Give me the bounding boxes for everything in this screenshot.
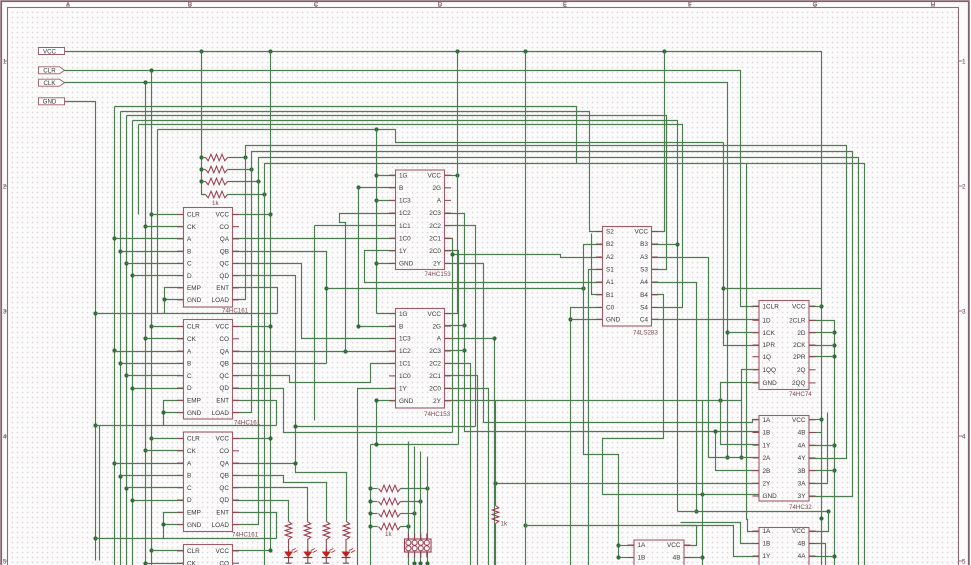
wire 1PR U7 up xyxy=(724,143,760,346)
svg-text:B: B xyxy=(399,323,403,330)
resistor R4 1k xyxy=(206,191,228,198)
bus line L6 xyxy=(158,130,724,143)
svg-text:CLR: CLR xyxy=(187,436,200,443)
wire xyxy=(371,526,378,528)
svg-text:4B: 4B xyxy=(798,541,806,548)
wire pin U1 xyxy=(133,275,184,277)
svg-text:LOAD: LOAD xyxy=(212,522,230,529)
wire VCC U8 xyxy=(810,419,822,421)
net row3 down right side xyxy=(259,158,859,565)
column letters xyxy=(66,2,936,9)
wire resistor to LED3 xyxy=(325,539,327,552)
svg-text:1B: 1B xyxy=(763,541,771,548)
wire header pin xyxy=(414,553,416,565)
svg-text:S3: S3 xyxy=(640,267,648,274)
svg-text:VCC: VCC xyxy=(635,229,649,236)
svg-text:1: 1 xyxy=(962,58,966,65)
wire staircase 2 xyxy=(296,426,476,428)
svg-text:EMP: EMP xyxy=(187,398,201,405)
svg-text:S1: S1 xyxy=(606,267,614,274)
wire R13 bottom xyxy=(495,524,497,565)
wire pin U2 xyxy=(152,326,184,328)
resistor R2 1k xyxy=(206,166,228,173)
svg-text:1C3: 1C3 xyxy=(399,198,411,205)
svg-text:A4: A4 xyxy=(640,279,648,286)
wire to 2C3 U4 xyxy=(445,350,465,352)
svg-text:1k: 1k xyxy=(212,200,219,207)
wire xyxy=(371,488,378,490)
svg-text:C4: C4 xyxy=(640,317,649,324)
GND supply flag xyxy=(39,98,65,106)
wire row2 to LOAD U2 xyxy=(233,170,252,413)
B bus vertical xyxy=(120,112,122,565)
IC U3 (74HC153) xyxy=(389,170,451,278)
wire A4 U5 xyxy=(652,283,697,512)
svg-text:B: B xyxy=(187,473,191,480)
svg-text:A2: A2 xyxy=(606,254,614,261)
wire A U4 xyxy=(445,338,495,340)
wire xyxy=(228,169,252,171)
svg-text:CK: CK xyxy=(187,560,197,565)
svg-text:GND: GND xyxy=(763,380,778,387)
wire 2C1 U4 drop xyxy=(445,376,478,565)
LED4 cathode lead + pin xyxy=(345,558,347,564)
wire resistor to LED2 xyxy=(307,539,309,552)
wire C4 U5 to 1D U7 xyxy=(652,319,760,321)
IC U6 (74HC161) xyxy=(177,432,259,539)
svg-text:2Y: 2Y xyxy=(763,481,772,488)
wire xyxy=(202,169,206,171)
wire QD U1 / QA U6 to R8 LED4 xyxy=(233,276,347,522)
wire resistor to LED1 xyxy=(288,539,290,552)
wire pin U2 xyxy=(127,375,184,377)
wire staircase 4 xyxy=(371,444,459,446)
wire GND U4 drop xyxy=(377,401,396,445)
wire xyxy=(401,501,421,503)
svg-text:2C0: 2C0 xyxy=(429,386,441,393)
svg-text:VCC: VCC xyxy=(216,324,230,331)
wire 2C2 U4 drop xyxy=(445,364,471,565)
resistor R8 led xyxy=(343,522,350,540)
wire VCC rail bottom xyxy=(526,525,697,527)
svg-text:C: C xyxy=(187,373,192,380)
wire up xyxy=(427,457,429,489)
IC U1 (74HC161) xyxy=(177,208,249,315)
wire S1 U5 drop xyxy=(589,270,603,565)
wire pin U6 xyxy=(115,463,184,465)
svg-text:QA: QA xyxy=(220,460,230,467)
resistor R6 led xyxy=(304,522,311,540)
svg-text:4: 4 xyxy=(3,433,7,440)
svg-text:GND: GND xyxy=(763,493,778,500)
wire 2C0 U4 drop xyxy=(445,389,489,565)
svg-text:1k: 1k xyxy=(501,521,508,528)
wire QA U2 up to 1C2 U3 xyxy=(340,214,396,352)
IC U11 (74HC32) xyxy=(628,540,691,565)
svg-text:4B: 4B xyxy=(673,555,681,562)
wire B U3 xyxy=(359,187,396,189)
wire xyxy=(202,157,206,159)
svg-text:B1: B1 xyxy=(606,292,614,299)
wire pin U1 xyxy=(121,251,184,253)
svg-text:4A: 4A xyxy=(798,553,807,560)
svg-text:VCC: VCC xyxy=(216,436,230,443)
wire 4A U10 xyxy=(810,556,835,558)
CLK supply flag xyxy=(39,79,65,87)
svg-text:3: 3 xyxy=(3,308,7,315)
gnd rail U6 xyxy=(96,538,277,540)
svg-text:EMP: EMP xyxy=(187,510,201,517)
wire xyxy=(371,501,378,503)
svg-text:74HC161: 74HC161 xyxy=(234,420,261,427)
svg-text:2CK: 2CK xyxy=(793,342,806,349)
wire resistor to LED4 xyxy=(345,539,347,552)
svg-text:74HC153: 74HC153 xyxy=(424,411,451,418)
svg-text:GND: GND xyxy=(187,297,202,304)
LED1 cathode lead + pin xyxy=(288,558,290,564)
wire A U4 drop xyxy=(494,339,496,565)
svg-text:1Y: 1Y xyxy=(399,248,408,255)
svg-text:74HC32: 74HC32 xyxy=(789,504,812,511)
resistor R5 led xyxy=(285,522,292,540)
svg-text:QC: QC xyxy=(219,261,229,268)
svg-text:GND: GND xyxy=(187,410,202,417)
svg-text:B2: B2 xyxy=(606,241,614,248)
wire QA U6 xyxy=(233,463,296,465)
wire 2C2 U3 drop xyxy=(445,226,476,427)
svg-text:4: 4 xyxy=(962,433,966,440)
svg-text:ENT: ENT xyxy=(216,398,229,405)
svg-text:1C1: 1C1 xyxy=(399,361,411,368)
resistor R3 1k xyxy=(206,178,228,185)
wire to 2G U4 xyxy=(445,325,465,327)
wire to header xyxy=(427,489,429,539)
LED3 cathode lead + pin xyxy=(325,558,327,564)
wire to VCC U10 xyxy=(810,512,829,532)
wire B drop to U4 xyxy=(359,188,396,327)
svg-text:CLR: CLR xyxy=(187,324,200,331)
IC U10 (74HC32) xyxy=(753,528,816,565)
svg-text:LOAD: LOAD xyxy=(212,297,230,304)
wire to header xyxy=(408,527,410,539)
svg-text:2G: 2G xyxy=(432,185,441,192)
svg-text:2: 2 xyxy=(962,183,966,190)
wire up xyxy=(420,452,422,502)
wire VCC U2 xyxy=(233,326,271,328)
svg-text:A: A xyxy=(437,198,442,205)
svg-text:2Y: 2Y xyxy=(433,261,442,268)
svg-text:GND: GND xyxy=(606,317,621,324)
svg-text:2C2: 2C2 xyxy=(429,223,441,230)
svg-text:CO: CO xyxy=(219,560,229,565)
wire 3B U8 xyxy=(810,470,835,472)
svg-text:2CLR: 2CLR xyxy=(789,318,806,325)
svg-text:2QQ: 2QQ xyxy=(792,380,806,387)
svg-text:QD: QD xyxy=(219,385,229,392)
resistor R12 1k xyxy=(379,523,401,530)
wire 511 rail xyxy=(678,511,829,513)
wire pin U1 xyxy=(146,226,184,228)
svg-text:QD: QD xyxy=(219,497,229,504)
wire 4A U8 xyxy=(810,445,835,447)
wire header pin xyxy=(420,553,422,565)
bus line L3 to S3 of U5 xyxy=(127,116,667,270)
svg-text:B: B xyxy=(187,248,191,255)
bus line L4 to B3 of U5 xyxy=(133,121,678,512)
LED LED4 xyxy=(342,549,356,558)
wire pin U2 xyxy=(146,338,184,340)
wire xyxy=(228,181,259,183)
IC U5 (74LS283) xyxy=(596,227,658,337)
svg-text:3Y: 3Y xyxy=(798,493,807,500)
resistor R9 1k xyxy=(379,485,401,492)
svg-text:1A: 1A xyxy=(638,542,647,549)
net row4 down right side xyxy=(265,164,865,565)
svg-text:A1: A1 xyxy=(606,279,614,286)
wire 4B U10 xyxy=(810,544,826,565)
svg-text:3B: 3B xyxy=(798,468,806,475)
wire header pin xyxy=(427,553,429,565)
svg-text:S2: S2 xyxy=(606,229,614,236)
svg-text:1k: 1k xyxy=(385,531,392,538)
wire 2C1 U3 drop xyxy=(445,239,453,433)
node xyxy=(444,338,446,340)
resistor R7 led xyxy=(323,522,330,540)
wire to header xyxy=(420,502,422,539)
D bus vertical xyxy=(132,121,134,565)
svg-text:1D: 1D xyxy=(763,318,772,325)
svg-text:CK: CK xyxy=(187,336,197,343)
svg-text:74HC74: 74HC74 xyxy=(789,391,812,398)
bus line L1 xyxy=(115,107,577,164)
svg-text:1QQ: 1QQ xyxy=(763,367,777,374)
svg-text:1A: 1A xyxy=(763,417,772,424)
wire QA U2 to 1C2 U4 xyxy=(233,351,396,353)
wire 3A U8 xyxy=(810,413,828,484)
wire pin U2 xyxy=(115,351,184,353)
svg-text:4Y: 4Y xyxy=(798,455,807,462)
wire xyxy=(228,157,246,159)
svg-text:LOAD: LOAD xyxy=(212,410,230,417)
svg-text:S4: S4 xyxy=(640,305,648,312)
wire pin U1 xyxy=(152,214,184,216)
wire pin U6 xyxy=(127,487,184,489)
wire 2PR U7 xyxy=(810,356,835,358)
wire row4 down xyxy=(264,195,266,565)
wire QD U2 staircase xyxy=(233,389,453,433)
svg-text:VCC: VCC xyxy=(792,528,806,535)
svg-text:B: B xyxy=(399,185,403,192)
svg-text:1C2: 1C2 xyxy=(399,348,411,355)
svg-text:74HC153: 74HC153 xyxy=(425,271,452,278)
svg-text:GND: GND xyxy=(43,99,57,106)
wire CLK to 1CK pin xyxy=(728,332,760,334)
wire B4 U5 to GND U8 xyxy=(603,295,760,495)
wire VCC U5 up xyxy=(652,52,665,232)
wire header pin xyxy=(408,553,410,565)
wire xyxy=(202,194,206,196)
wire 2B U8 xyxy=(716,432,760,471)
svg-text:1G: 1G xyxy=(399,311,408,318)
svg-text:ENT: ENT xyxy=(216,285,229,292)
wire QB U1 drop xyxy=(233,252,327,364)
wire to header xyxy=(414,514,416,539)
svg-text:2A: 2A xyxy=(763,455,772,462)
wire VCC U7 xyxy=(810,306,822,308)
wire left rail R group xyxy=(370,445,372,565)
svg-text:GND: GND xyxy=(187,522,202,529)
wire GND U7 to 1Y U8 xyxy=(721,383,760,445)
IC U4 (74HC153) xyxy=(389,309,451,419)
wire xyxy=(371,513,378,515)
wire B3 U5 xyxy=(652,244,678,246)
svg-text:1Y: 1Y xyxy=(763,442,772,449)
wire gnd return xyxy=(99,426,101,561)
svg-text:CO: CO xyxy=(219,448,229,455)
wire QC U6 to R6 LED2 xyxy=(233,488,308,522)
wire EMP U6 xyxy=(164,513,184,539)
CLK net down to 1CK xyxy=(65,83,728,458)
wire pin U1 xyxy=(127,263,184,265)
wire A3 U5 to 2A U8 xyxy=(652,258,760,458)
wire 4B U8 xyxy=(810,432,822,434)
wire B1 U5 xyxy=(592,234,603,295)
wire VCC U1 xyxy=(233,214,271,216)
svg-text:B: B xyxy=(187,361,191,368)
LED LED2 xyxy=(303,549,317,558)
svg-text:EMP: EMP xyxy=(187,285,201,292)
wire 1Y U3 to A1 U5 xyxy=(365,251,603,283)
wire VCC U3 xyxy=(445,175,458,177)
connector SV1 pin header xyxy=(405,534,432,558)
gnd rail U1 xyxy=(96,313,278,315)
svg-text:QC: QC xyxy=(219,373,229,380)
wire row1 to LOAD U1 xyxy=(233,158,246,300)
VCC supply flag xyxy=(39,48,65,56)
wire pin U6 xyxy=(146,450,184,452)
svg-text:VCC: VCC xyxy=(216,548,230,555)
svg-text:CO: CO xyxy=(219,224,229,231)
svg-text:C0: C0 xyxy=(606,305,615,312)
svg-text:1Y: 1Y xyxy=(763,553,772,560)
wire to 1G U3 xyxy=(377,175,396,177)
IC U2 (74HC161) xyxy=(177,320,261,427)
wire ENT U2 xyxy=(233,401,277,426)
wire QB U6 to R7 LED3 xyxy=(233,476,327,522)
svg-text:CO: CO xyxy=(219,336,229,343)
wire GND U6 xyxy=(164,524,184,526)
IC U9 (74HC161) xyxy=(177,545,239,565)
svg-text:C: C xyxy=(187,261,192,268)
VCC drop to U4 xyxy=(445,52,458,314)
wire to 1C3 U3 xyxy=(377,200,396,202)
CLK bus vertical xyxy=(145,83,147,565)
wire to VCC vertical xyxy=(724,288,822,290)
wire 2C0 U3 drop xyxy=(445,251,459,445)
svg-text:CK: CK xyxy=(187,224,197,231)
svg-text:C: C xyxy=(187,485,192,492)
svg-text:2D: 2D xyxy=(797,330,806,337)
svg-text:CLR: CLR xyxy=(187,212,200,219)
wire drop xyxy=(138,125,140,215)
CLR bus vertical xyxy=(151,71,153,565)
svg-text:2Y: 2Y xyxy=(433,398,442,405)
svg-text:B3: B3 xyxy=(640,241,648,248)
wire 1B gate xyxy=(619,557,635,559)
wire C0 U5 drop xyxy=(571,308,603,565)
VCC drop to resistor group xyxy=(202,52,206,195)
svg-text:4A: 4A xyxy=(798,442,807,449)
wire GND U3 xyxy=(377,263,396,265)
svg-text:VCC: VCC xyxy=(792,303,806,310)
svg-text:1Q: 1Q xyxy=(763,354,772,361)
svg-text:A: A xyxy=(437,336,442,343)
resistor R13 1k xyxy=(492,506,499,524)
wire to 1C1 U3 xyxy=(315,225,396,227)
svg-text:A: A xyxy=(187,460,192,467)
wire pin U2 xyxy=(133,388,184,390)
wire up xyxy=(408,442,410,527)
svg-text:A3: A3 xyxy=(640,254,648,261)
wire drop xyxy=(702,401,704,565)
svg-text:QC: QC xyxy=(219,485,229,492)
svg-text:A: A xyxy=(187,236,192,243)
svg-text:QA: QA xyxy=(220,236,230,243)
svg-text:1PR: 1PR xyxy=(763,342,776,349)
svg-text:2G: 2G xyxy=(432,323,441,330)
svg-text:2C2: 2C2 xyxy=(429,361,441,368)
wire xyxy=(202,181,206,183)
svg-text:VCC: VCC xyxy=(667,542,681,549)
CLR supply flag xyxy=(39,67,65,75)
wire 1B U10 xyxy=(681,523,760,544)
wire GND U2 xyxy=(164,412,184,414)
wire pin U6 xyxy=(133,500,184,502)
svg-text:1C0: 1C0 xyxy=(399,373,411,380)
svg-text:1C1: 1C1 xyxy=(399,223,411,230)
wire EMP U1 xyxy=(165,288,184,314)
svg-text:GND: GND xyxy=(399,261,414,268)
wire to B2 net xyxy=(327,288,584,290)
wire 1A U10 long vertical xyxy=(747,164,760,532)
svg-text:1: 1 xyxy=(3,58,7,65)
net row2 to 3Y of U8 xyxy=(252,152,853,497)
svg-text:GND: GND xyxy=(399,398,414,405)
resistor R1 1k xyxy=(206,154,228,161)
svg-text:QA: QA xyxy=(220,348,230,355)
svg-text:VCC: VCC xyxy=(43,48,57,55)
wire QD U6 to R5 LED1 xyxy=(233,501,289,522)
long VCC vertical xyxy=(525,52,527,565)
wire pin U1 xyxy=(115,238,184,240)
svg-text:QB: QB xyxy=(220,473,229,480)
svg-text:74HC161: 74HC161 xyxy=(222,308,249,315)
VCC net horizontal + right drop xyxy=(65,52,822,565)
IC U8 (74HC32) xyxy=(753,416,816,512)
wire 1A gate xyxy=(619,545,635,547)
svg-text:2Q: 2Q xyxy=(797,367,806,374)
wire row3 to LOAD U6 xyxy=(233,182,259,525)
C bus vertical xyxy=(126,116,128,565)
svg-text:4B: 4B xyxy=(798,430,806,437)
svg-text:VCC: VCC xyxy=(792,417,806,424)
wire 2Y U4 to 1QQ U7 xyxy=(445,400,742,402)
wire xyxy=(401,513,415,515)
VCC vertical to counters xyxy=(233,52,271,551)
wire ENT U1 xyxy=(233,288,278,314)
wire to 1G U4 xyxy=(377,313,396,315)
wire drop xyxy=(314,226,316,421)
